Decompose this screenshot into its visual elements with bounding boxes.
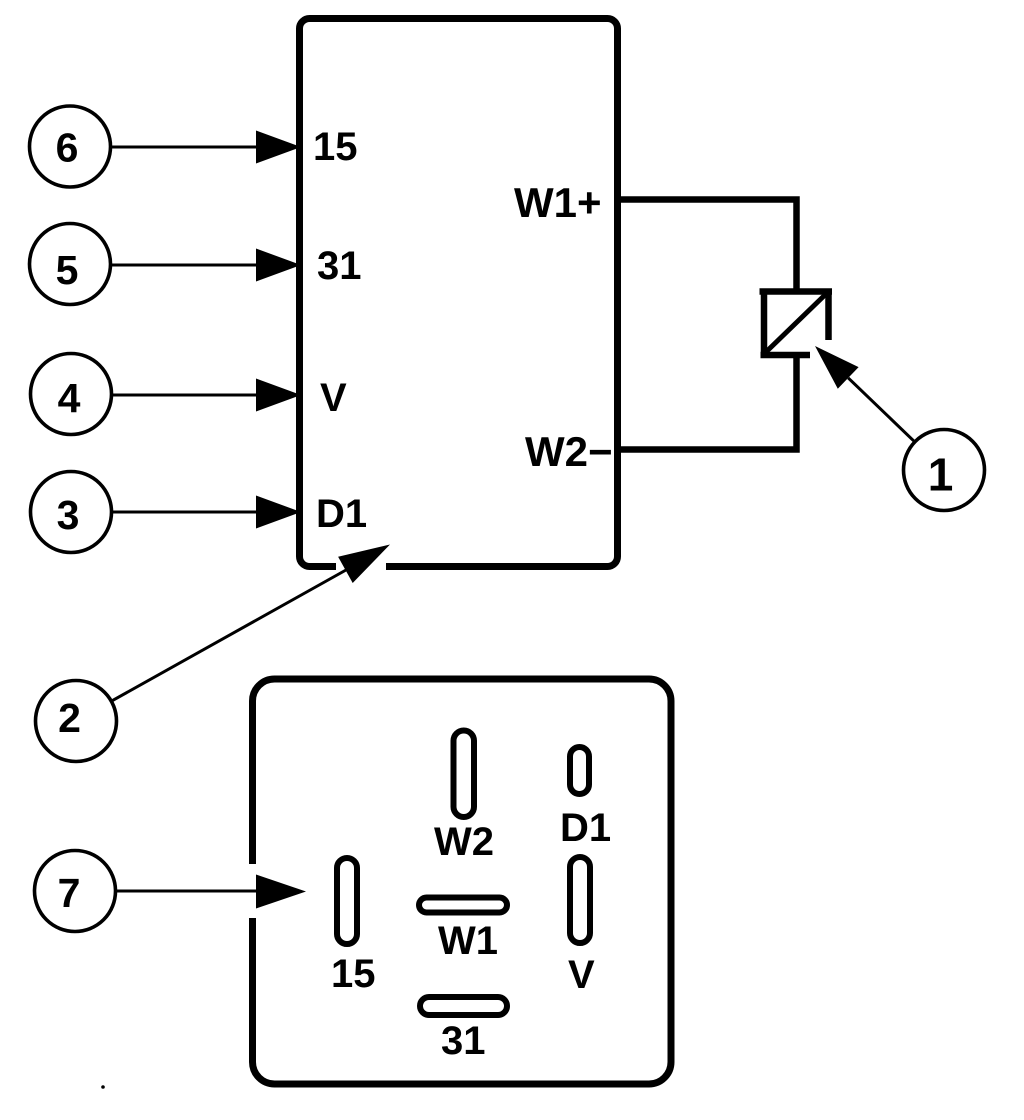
slot W1 [419, 898, 507, 913]
svg-text:D1: D1 [560, 806, 611, 850]
connector housing X1 [247, 679, 671, 1084]
callout circle 7 [35, 851, 116, 932]
callout circle 1 [904, 430, 985, 511]
scan speck [101, 1085, 105, 1089]
arrow from 6 to pin 15 [111, 131, 302, 164]
svg-text:5: 5 [56, 247, 79, 293]
svg-text:W2: W2 [434, 820, 494, 864]
svg-text:V: V [320, 376, 347, 420]
callout circle 5 [30, 224, 111, 305]
svg-text:31: 31 [441, 1019, 486, 1063]
svg-text:W1+: W1+ [514, 179, 602, 226]
arrow from 5 to pin 31 [111, 249, 302, 282]
svg-text:1: 1 [928, 449, 954, 501]
wire W2- to sensor [617, 354, 797, 450]
svg-text:15: 15 [313, 125, 358, 169]
svg-text:31: 31 [317, 244, 362, 288]
svg-text:7: 7 [58, 870, 81, 916]
svg-text:V: V [568, 953, 595, 997]
slot D1 [570, 747, 589, 794]
callout circle 2 [36, 681, 117, 762]
svg-text:W1: W1 [438, 919, 498, 963]
arrow from 1 to sensor [815, 346, 915, 442]
slot 31 [420, 997, 507, 1015]
slot W2 [454, 731, 475, 818]
svg-text:15: 15 [331, 952, 376, 996]
svg-text:3: 3 [57, 492, 80, 538]
slot 15 [337, 858, 357, 944]
wire W1+ to sensor [617, 200, 797, 293]
callout circle 6 [30, 106, 111, 187]
arrow from 7 to slot 15 [116, 875, 307, 909]
callout circle 4 [31, 354, 112, 435]
svg-text:4: 4 [58, 375, 81, 421]
arrow from 3 to pin D1 [112, 496, 302, 529]
slot V [570, 857, 590, 943]
callout circle 3 [31, 472, 112, 553]
svg-text:6: 6 [56, 125, 79, 171]
svg-text:2: 2 [58, 695, 81, 741]
svg-text:D1: D1 [316, 492, 367, 536]
sensor B1 (square with diagonal) [760, 289, 833, 359]
control unit box U1 [300, 19, 618, 576]
svg-text:W2−: W2− [525, 428, 613, 475]
arrow from 4 to pin V [112, 379, 302, 412]
arrow from 2 to box lower edge [111, 545, 390, 702]
